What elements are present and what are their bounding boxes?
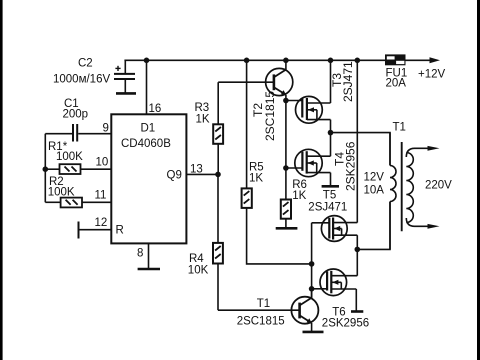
node: R5 to gates node <box>309 261 315 267</box>
transistor T3 2SJ471 MOSFET <box>296 96 331 123</box>
transformer T1 primary winding <box>390 133 396 250</box>
svg-text:2SJ471: 2SJ471 <box>341 61 355 102</box>
svg-text:T1: T1 <box>257 298 270 310</box>
wire: T3 source to rail <box>330 60 332 103</box>
wire: T5 drain to midpoint2 <box>356 235 358 249</box>
svg-text:R4: R4 <box>189 253 204 265</box>
ground (IC pin 8) <box>138 268 160 271</box>
ground (T4) <box>322 185 339 188</box>
fuse FU1 <box>385 54 406 65</box>
svg-text:13: 13 <box>190 164 203 176</box>
wire: T6 gate <box>312 288 328 290</box>
node: T5/T6 midpoint <box>355 247 361 253</box>
svg-text:16: 16 <box>149 103 162 115</box>
svg-text:1K: 1K <box>292 190 306 202</box>
svg-text:100K: 100K <box>56 151 83 163</box>
svg-text:T1: T1 <box>393 122 406 134</box>
node: T4 gate junction <box>283 165 289 171</box>
svg-text:9: 9 <box>103 123 109 135</box>
resistor R1 100K <box>45 164 111 174</box>
svg-text:2SC1815: 2SC1815 <box>263 91 277 141</box>
node: rail junction to pin 16 <box>144 58 150 64</box>
right image edge black column <box>477 0 480 360</box>
svg-text:1K: 1K <box>249 173 263 185</box>
ground (T6) <box>351 310 363 313</box>
node: rail junction T2 collector <box>283 58 289 64</box>
node: T6 gate to gates node <box>309 286 315 292</box>
node: Q9 junction <box>215 172 221 178</box>
transistor T4 2SK2956 MOSFET <box>295 149 331 176</box>
svg-text:100K: 100K <box>48 186 75 198</box>
left image edge black column <box>0 0 3 360</box>
svg-text:R3: R3 <box>195 102 210 114</box>
wire: midpoint2 to transformer primary bottom <box>357 202 390 250</box>
resistor R2 100K <box>45 198 111 208</box>
wire: T2 emitter down to R6 <box>285 101 287 200</box>
node: rail junction R5 <box>244 58 250 64</box>
node: rail junction T3 source <box>328 58 334 64</box>
wire: T3 drain to midpoint <box>330 120 332 133</box>
node: left rail junction R1 <box>43 166 49 172</box>
node: T2 emitter junction <box>283 98 289 104</box>
svg-text:Q9: Q9 <box>167 170 182 182</box>
wire: IC pin 8 to ground <box>148 243 150 269</box>
wire: rail to IC pin 16 <box>146 60 148 114</box>
svg-text:2SC1815: 2SC1815 <box>237 316 285 328</box>
wire: gates node vertical <box>311 223 313 299</box>
svg-text:2SK2956: 2SK2956 <box>322 318 369 330</box>
transistor T1 2SC1815 <box>291 289 318 332</box>
node: T3/T4 midpoint <box>328 130 334 136</box>
C2 plus sign <box>115 66 120 71</box>
ground (C2) <box>116 92 136 95</box>
ground (T1 emitter) <box>303 331 324 334</box>
svg-text:220V: 220V <box>425 180 452 192</box>
svg-text:12V: 12V <box>364 172 385 184</box>
wire: T2 emitter to T3 gate <box>286 100 302 102</box>
transistor T5 2SJ471 MOSFET <box>321 216 357 242</box>
op-amp/IC D1 CD4060B body <box>111 114 186 243</box>
svg-text:CD4060B: CD4060B <box>121 138 171 150</box>
resistor R6 1K <box>281 200 291 229</box>
wire: T5 gate <box>312 222 330 224</box>
wire: pin 12 with terminator bar <box>79 222 112 239</box>
capacitor C1 <box>45 124 111 142</box>
transformer T1 secondary winding <box>406 146 439 229</box>
svg-text:8: 8 <box>137 248 143 260</box>
wire: T6 source to ground <box>355 289 357 311</box>
resistor R5 1K <box>242 60 312 264</box>
ground (R6) <box>276 227 298 230</box>
svg-text:11: 11 <box>95 190 107 202</box>
svg-text:20A: 20A <box>386 78 407 90</box>
wire: rail arrowhead to +12V <box>430 57 441 63</box>
wire: +12V top rail <box>124 59 433 61</box>
wire: midpoint to transformer primary top <box>331 133 391 166</box>
svg-text:10A: 10A <box>364 185 385 197</box>
svg-text:1000м/16V: 1000м/16V <box>53 74 110 86</box>
wire: to T4 gate <box>286 167 303 169</box>
transistor T2 2SC1815 <box>266 60 293 100</box>
wire: T4 source to ground <box>330 173 332 186</box>
node: rail junction +12V drop <box>355 58 361 64</box>
resistor R4 10K <box>213 174 223 310</box>
svg-text:R: R <box>116 225 124 237</box>
svg-text:2SJ471: 2SJ471 <box>308 202 347 214</box>
svg-text:12: 12 <box>95 217 108 229</box>
svg-text:1K: 1K <box>196 114 210 126</box>
wire: +12V drop to T5 source <box>356 60 358 222</box>
transformer T1 core <box>401 142 403 231</box>
resistor R3 1K <box>213 82 223 174</box>
wire: left oscillator rail <box>44 134 46 203</box>
wire: R4 to T1 base <box>218 309 300 311</box>
svg-text:2SK2956: 2SK2956 <box>344 141 358 191</box>
svg-text:10: 10 <box>96 157 109 169</box>
svg-text:C2: C2 <box>78 58 93 70</box>
svg-text:D1: D1 <box>141 123 156 135</box>
wire: midpoint to T4 drain <box>330 133 332 157</box>
svg-text:T5: T5 <box>323 190 336 202</box>
wire: midpoint2 down to T6 drain <box>356 249 358 275</box>
transistor T6 2SK2956 MOSFET <box>320 269 357 296</box>
wire: IC pin 13 Q9 output <box>186 173 218 175</box>
svg-text:+12V: +12V <box>418 69 446 81</box>
svg-text:10K: 10K <box>188 265 209 277</box>
svg-text:200p: 200p <box>63 109 89 121</box>
wire: T2 base from R3 top <box>218 81 274 83</box>
capacitor C2 <box>114 60 135 92</box>
